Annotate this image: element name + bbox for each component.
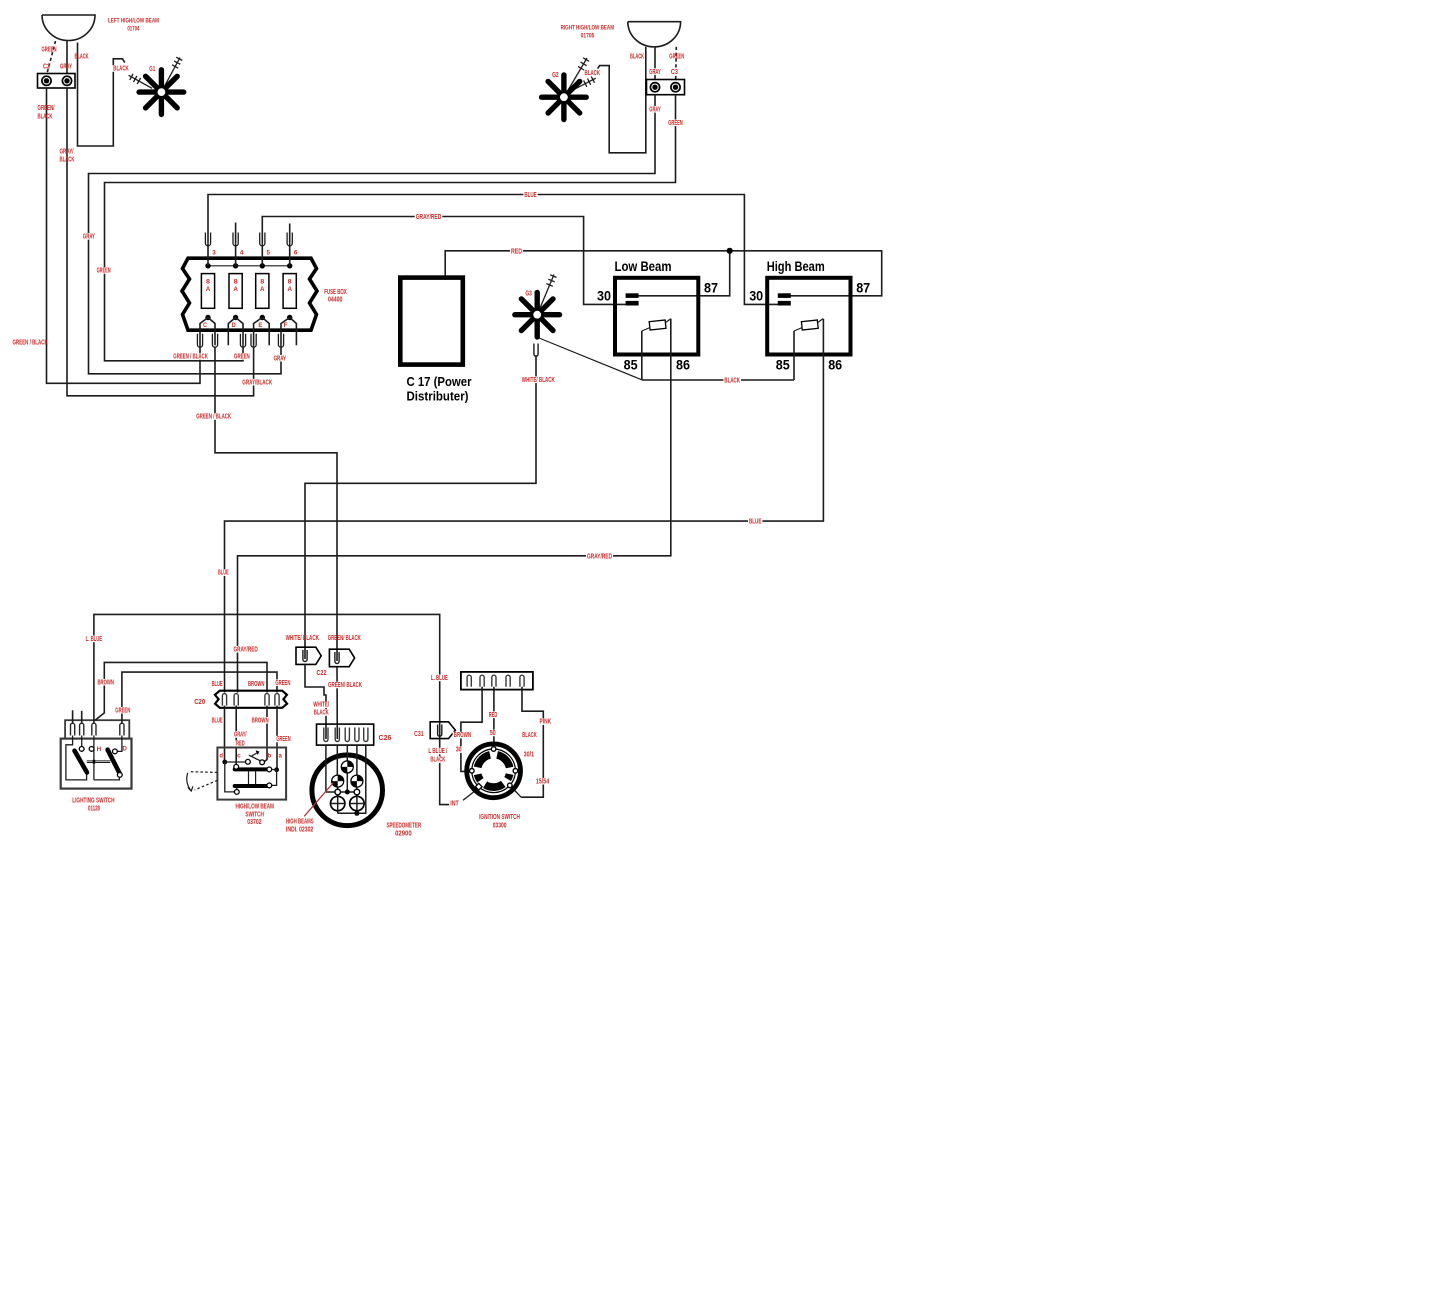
wire GRAY lead right lamp to C3 pin1 xyxy=(648,47,662,80)
svg-text:01704: 01704 xyxy=(127,26,139,33)
svg-text:GREEN: GREEN xyxy=(42,47,57,54)
svg-text:F: F xyxy=(284,322,288,329)
svg-text:GRAY: GRAY xyxy=(649,69,661,76)
svg-text:GREEN: GREEN xyxy=(276,736,290,743)
svg-text:E: E xyxy=(258,322,262,329)
svg-text:SWITCH: SWITCH xyxy=(245,811,264,818)
label INT and diagonal to ignition switch xyxy=(449,791,475,808)
svg-text:5: 5 xyxy=(267,250,271,257)
svg-text:BLUE: BLUE xyxy=(218,570,229,577)
svg-text:BROWN: BROWN xyxy=(454,732,472,739)
connector C31 xyxy=(414,722,455,739)
svg-text:GREEN/: GREEN/ xyxy=(38,105,55,112)
svg-text:BLACK: BLACK xyxy=(522,732,537,739)
svg-text:Distributer): Distributer) xyxy=(407,389,469,404)
svg-text:C31: C31 xyxy=(414,731,424,738)
speedometer 02900 xyxy=(312,745,421,837)
svg-text:8: 8 xyxy=(260,278,264,285)
svg-text:8: 8 xyxy=(234,278,238,285)
fuse box 04400 xyxy=(182,233,347,348)
wire GREEN lead (dashed) left lamp to C2 pin1 xyxy=(42,41,57,74)
ground G3 xyxy=(515,275,560,338)
svg-text:30: 30 xyxy=(456,747,462,754)
svg-text:FUSE BOX: FUSE BOX xyxy=(324,289,347,296)
svg-text:BLACK: BLACK xyxy=(430,757,445,764)
svg-text:GRAY: GRAY xyxy=(60,64,72,71)
svg-text:BROWN: BROWN xyxy=(252,717,269,724)
wire GRAY lead left lamp to C2 pin2 xyxy=(60,41,72,74)
wire GREEN/BLACK fuse second pin to connector C22 xyxy=(195,347,337,661)
wire GRAY/RED C20 to high/low switch xyxy=(233,706,248,765)
wire BLACK relay 85 to 85 xyxy=(642,377,794,384)
svg-text:INDI. 02302: INDI. 02302 xyxy=(286,827,313,834)
svg-text:SPEEDOMETER: SPEEDOMETER xyxy=(387,823,422,830)
svg-text:WHITE/: WHITE/ xyxy=(313,702,329,709)
pin below G3 xyxy=(534,344,538,357)
svg-text:C22: C22 xyxy=(317,670,327,677)
svg-text:GRAY/: GRAY/ xyxy=(60,149,74,156)
svg-text:L. BLUE: L. BLUE xyxy=(431,675,448,682)
ground arrow into G2 xyxy=(572,77,596,91)
connector C22 left half xyxy=(286,635,322,664)
svg-text:G1: G1 xyxy=(149,66,155,73)
svg-text:GRAY: GRAY xyxy=(649,107,661,114)
svg-text:BLACK: BLACK xyxy=(724,378,740,385)
svg-text:GREEN / BLACK: GREEN / BLACK xyxy=(196,414,231,421)
svg-text:A: A xyxy=(260,286,265,293)
svg-text:C26: C26 xyxy=(379,735,392,742)
svg-text:86: 86 xyxy=(828,358,842,373)
svg-text:GRAY/RED: GRAY/RED xyxy=(233,646,257,653)
high/low beam switch 03702 xyxy=(187,748,286,827)
label HIGH BEAMS INDI. 02302 xyxy=(286,818,314,833)
wire stub fuse pin4 xyxy=(235,223,237,244)
svg-text:85: 85 xyxy=(624,358,638,373)
wire WHITE/BLACK G3 to connector C22 xyxy=(305,355,556,659)
connector C20 xyxy=(194,691,287,708)
svg-text:30: 30 xyxy=(597,289,611,304)
wire GRAY/RED Low Beam 86 to C20 xyxy=(232,319,670,693)
wire L.BLUE lighting switch to C31/ignition xyxy=(85,614,452,804)
svg-text:L BLUE /: L BLUE / xyxy=(428,748,447,755)
svg-text:BROWN: BROWN xyxy=(248,681,265,688)
svg-text:04400: 04400 xyxy=(328,297,343,304)
label BLUE above C20 xyxy=(211,681,224,688)
svg-text:GRAY: GRAY xyxy=(274,355,287,362)
svg-text:BLACK: BLACK xyxy=(60,157,75,164)
svg-text:C20: C20 xyxy=(194,699,205,706)
svg-text:3: 3 xyxy=(212,250,216,257)
svg-text:50: 50 xyxy=(490,730,496,737)
svg-text:GREEN: GREEN xyxy=(97,268,111,275)
svg-text:c: c xyxy=(237,752,241,759)
svg-text:86: 86 xyxy=(676,358,690,373)
svg-text:03702: 03702 xyxy=(247,819,261,826)
svg-text:02900: 02900 xyxy=(395,830,412,837)
svg-text:H: H xyxy=(97,746,102,753)
svg-text:High Beam: High Beam xyxy=(767,259,825,274)
svg-text:BLUE: BLUE xyxy=(749,519,762,526)
wire GRAY/BLACK C2 to fuse pin E xyxy=(60,88,274,396)
svg-text:LEFT HIGH/LOW BEAM: LEFT HIGH/LOW BEAM xyxy=(108,18,159,25)
svg-text:01128: 01128 xyxy=(88,806,100,813)
svg-text:PINK: PINK xyxy=(540,719,552,726)
wire BLUE High Beam 86 to C20 xyxy=(217,319,823,693)
wire BLUE fuse pin3 to High Beam relay 30 xyxy=(208,192,778,305)
svg-text:D: D xyxy=(232,322,236,329)
svg-text:87: 87 xyxy=(856,281,870,296)
wire Low Beam 87 to RED xyxy=(639,251,730,296)
svg-text:GREEN: GREEN xyxy=(234,354,250,361)
svg-text:BROWN: BROWN xyxy=(97,679,114,686)
svg-text:GREEN / BLACK: GREEN / BLACK xyxy=(12,340,47,347)
svg-text:GREEN / BLACK: GREEN / BLACK xyxy=(173,354,208,361)
svg-text:GRAY: GRAY xyxy=(83,234,95,241)
wire GRAY C3 to fuse pin F xyxy=(82,95,662,374)
ground G2 xyxy=(542,58,590,120)
svg-text:GREEN/ BLACK: GREEN/ BLACK xyxy=(328,682,362,689)
box C17 power distributer xyxy=(400,278,471,404)
connector C2 xyxy=(38,64,76,89)
svg-text:INT: INT xyxy=(450,800,459,807)
svg-text:GREEN/ BLACK: GREEN/ BLACK xyxy=(328,635,361,642)
svg-text:WHITE/ BLACK: WHITE/ BLACK xyxy=(522,377,555,384)
svg-text:b: b xyxy=(268,752,272,759)
svg-text:GRAY/RED: GRAY/RED xyxy=(587,553,612,560)
svg-text:BLUE: BLUE xyxy=(212,717,223,724)
wire WHITE/BLACK C22 to C26 pin1 xyxy=(305,664,330,739)
svg-text:C2: C2 xyxy=(43,64,50,71)
wire from G3 to Low Beam 85 (diagonal) xyxy=(539,338,642,380)
wire PINK/BLACK ignition connector to terminal 15/54 xyxy=(511,687,552,797)
svg-text:HIGH/LOW BEAM: HIGH/LOW BEAM xyxy=(235,804,274,811)
wire GREEN C20 to high/low switch xyxy=(275,706,291,768)
svg-text:GREEN: GREEN xyxy=(275,680,290,687)
svg-text:RED: RED xyxy=(511,248,522,255)
svg-text:01705: 01705 xyxy=(581,33,595,40)
svg-text:8: 8 xyxy=(206,278,210,285)
wire GREEN/BLACK C22 to C26 pin2 xyxy=(327,667,363,739)
ground arrow into G1 xyxy=(129,74,152,89)
svg-text:HIGH BEAMS: HIGH BEAMS xyxy=(286,818,314,825)
svg-text:BLACK: BLACK xyxy=(75,54,89,61)
svg-text:LIGHTING SWITCH: LIGHTING SWITCH xyxy=(72,798,114,805)
svg-text:C 17 (Power: C 17 (Power xyxy=(407,374,472,389)
lighting switch 01128 xyxy=(61,710,132,812)
connector C26 xyxy=(317,724,392,745)
wire BROWN C20 to high/low switch xyxy=(251,706,270,762)
wire RED ignition connector to terminal 50 xyxy=(488,687,499,747)
relay Low Beam xyxy=(597,259,718,373)
svg-text:L. BLUE: L. BLUE xyxy=(86,636,103,643)
svg-text:GRAY/BLACK: GRAY/BLACK xyxy=(242,379,272,386)
svg-text:BLACK: BLACK xyxy=(113,66,129,73)
lamp RIGHT HIGH/LOW BEAM 01705 xyxy=(561,22,681,47)
svg-text:87: 87 xyxy=(704,281,718,296)
svg-text:C3: C3 xyxy=(671,69,678,76)
svg-text:A: A xyxy=(287,286,292,293)
svg-text:4: 4 xyxy=(240,250,244,257)
svg-text:D: D xyxy=(122,746,127,753)
svg-text:RIGHT HIGH/LOW BEAM: RIGHT HIGH/LOW BEAM xyxy=(561,25,615,32)
svg-text:G2: G2 xyxy=(552,72,559,79)
wire GREEN lighting switch to C20 xyxy=(114,672,291,723)
wire BLACK left lamp to ground G1 xyxy=(75,43,130,147)
svg-text:RED: RED xyxy=(489,712,498,719)
ground G1 xyxy=(139,57,184,114)
ignition switch rotary contact xyxy=(467,744,521,798)
junction node on RED wire xyxy=(727,248,733,254)
svg-text:GRAY/RED: GRAY/RED xyxy=(416,214,442,221)
svg-text:IGNITION SWITCH: IGNITION SWITCH xyxy=(479,814,520,821)
wire GRAY/RED fuse pin5 to Low Beam relay 30 xyxy=(262,214,625,305)
svg-text:03300: 03300 xyxy=(493,823,507,830)
relay High Beam xyxy=(749,259,870,373)
connector C22 right half xyxy=(317,635,361,677)
svg-text:WHITE/ BLACK: WHITE/ BLACK xyxy=(286,635,319,642)
svg-text:BLUE: BLUE xyxy=(212,681,223,688)
lamp LEFT HIGH/LOW BEAM 01704 xyxy=(42,15,159,41)
svg-text:C: C xyxy=(203,322,207,329)
wire stub fuse pin6 xyxy=(289,224,291,244)
label L BLUE / BLACK below C31 xyxy=(427,748,448,764)
wire RED C17 to relay 87 terminals xyxy=(445,248,882,296)
connector C3 xyxy=(647,68,685,94)
svg-text:30/1: 30/1 xyxy=(524,751,535,758)
svg-text:BLACK: BLACK xyxy=(314,710,329,717)
label IGNITION SWITCH 03300 xyxy=(479,814,520,829)
svg-text:6: 6 xyxy=(294,250,298,257)
svg-text:GRAY/: GRAY/ xyxy=(234,732,247,739)
wire BROWN ignition connector to terminal 30 xyxy=(453,687,483,772)
wire High Beam 85 lead xyxy=(793,331,795,380)
svg-text:BLACK: BLACK xyxy=(38,114,53,121)
svg-text:GREEN: GREEN xyxy=(668,120,683,127)
red pointer line to high-beam indicator xyxy=(304,783,333,817)
wire BROWN lighting switch to C20 xyxy=(95,662,267,720)
wire BLACK right lamp to ground G2 xyxy=(584,47,646,153)
wire BLUE C20 to high/low switch xyxy=(211,706,225,762)
wire GREEN lead (dashed) right lamp to C3 pin2 xyxy=(669,47,684,80)
svg-text:15/54: 15/54 xyxy=(536,778,550,785)
svg-text:A: A xyxy=(233,286,238,293)
svg-text:a: a xyxy=(279,752,283,759)
wire GREEN C3 to fuse pin D xyxy=(96,95,684,361)
svg-text:d: d xyxy=(220,752,224,759)
svg-text:A: A xyxy=(206,286,211,293)
svg-text:GREEN: GREEN xyxy=(669,54,684,61)
svg-text:30: 30 xyxy=(749,289,763,304)
svg-text:GREEN: GREEN xyxy=(115,707,130,714)
svg-text:BLACK: BLACK xyxy=(585,70,601,77)
svg-text:85: 85 xyxy=(776,358,790,373)
svg-text:Low Beam: Low Beam xyxy=(615,259,672,274)
wire GREEN/BLACK C2 to fuse pin C xyxy=(12,88,208,383)
svg-text:8: 8 xyxy=(288,278,292,285)
svg-text:BLACK: BLACK xyxy=(630,54,644,61)
svg-text:G3: G3 xyxy=(525,291,532,298)
svg-text:BLUE: BLUE xyxy=(524,192,537,199)
ignition connector 5-pin xyxy=(461,672,533,690)
wire Low Beam 85 lead xyxy=(641,331,643,380)
